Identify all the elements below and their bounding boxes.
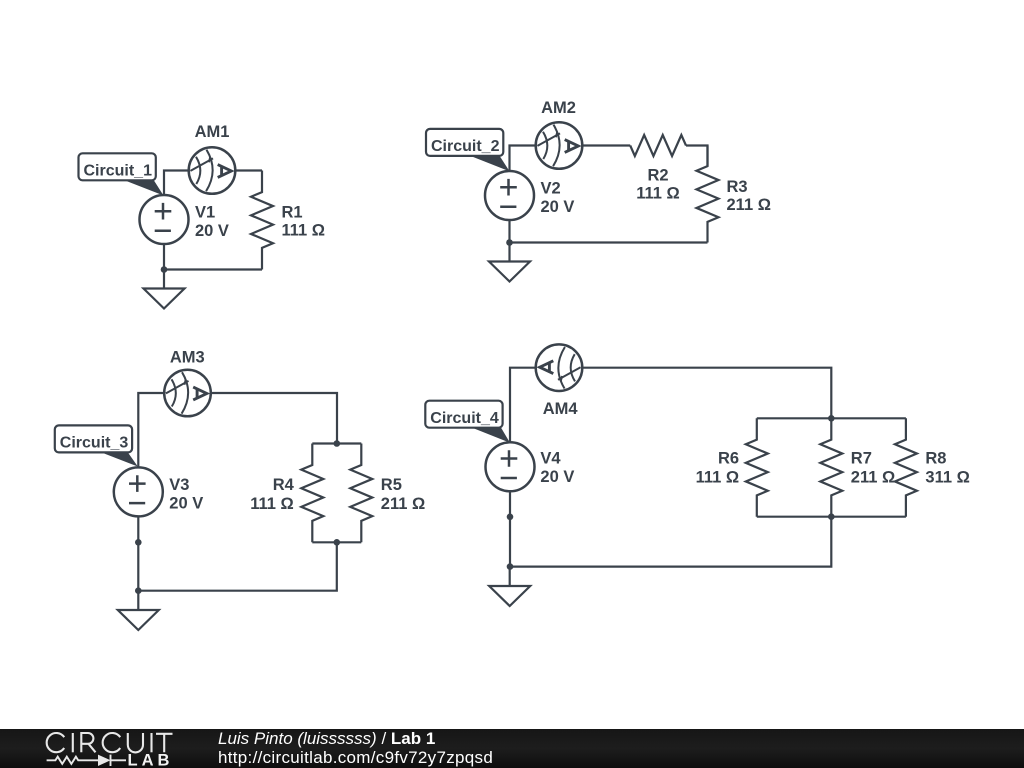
wire AM2 to R2: [582, 144, 630, 146]
ground: [163, 270, 165, 289]
wire V3 top to AM3: [138, 393, 164, 467]
wire V4 bottom down: [509, 491, 511, 566]
svg-text:AM2: AM2: [541, 99, 576, 117]
wire R3 bottom to node: [510, 241, 708, 243]
wire bottom rail c4: [757, 516, 906, 518]
wire V3 bottom down: [137, 516, 139, 590]
CircuitLab logo text CIRCUIT: [47, 733, 173, 752]
wire V2 top to AM2: [510, 146, 536, 172]
note label Circuit_3: [55, 425, 138, 466]
ammeter AM1 symbol: [189, 147, 236, 194]
svg-text:311 Ω: 311 Ω: [925, 468, 969, 486]
resistor R5: [350, 444, 372, 543]
junction c3 top rail: [334, 440, 341, 447]
svg-text:211 Ω: 211 Ω: [851, 468, 895, 486]
svg-text:http://circuitlab.com/c9fv72y7: http://circuitlab.com/c9fv72y7zpqsd: [218, 748, 493, 767]
wire V1 bottom to node: [163, 244, 165, 270]
resistor R4: [301, 444, 323, 543]
junction c2 bottom: [506, 239, 513, 246]
svg-text:111 Ω: 111 Ω: [282, 222, 326, 240]
svg-text:R2: R2: [647, 166, 668, 184]
svg-text:R3: R3: [727, 178, 748, 196]
junction c3 bottom rail: [334, 539, 341, 546]
svg-text:V1: V1: [195, 204, 215, 222]
svg-text:Circuit_2: Circuit_2: [431, 138, 500, 155]
svg-text:Circuit_1: Circuit_1: [84, 163, 153, 180]
resistor R3: [697, 146, 719, 243]
junction c1 bottom: [161, 266, 168, 273]
svg-text:R1: R1: [282, 204, 303, 222]
svg-text:111 Ω: 111 Ω: [636, 184, 680, 202]
svg-text:211 Ω: 211 Ω: [381, 495, 425, 513]
ammeter AM4 symbol: [536, 344, 583, 391]
wire AM3 to rail: [211, 393, 337, 444]
resistor R6: [746, 418, 768, 516]
svg-text:AM1: AM1: [195, 123, 230, 141]
footer bar: [0, 729, 1024, 768]
resistor R8: [895, 418, 917, 516]
junction c4 left mid: [507, 514, 514, 521]
voltage source V3: [114, 467, 163, 516]
svg-text:LAB: LAB: [128, 751, 174, 768]
wire rail to bottom c4: [510, 517, 831, 567]
svg-text:R8: R8: [925, 449, 946, 467]
note label Circuit_2: [426, 129, 510, 171]
logo diode triangle: [98, 755, 111, 766]
svg-text:20 V: 20 V: [541, 198, 575, 216]
voltage source V2: [485, 171, 534, 220]
wire rail to bottom: [138, 542, 336, 590]
wire V4 top to AM4: [510, 368, 537, 443]
svg-text:V4: V4: [540, 449, 561, 467]
svg-text:20 V: 20 V: [195, 222, 229, 240]
svg-text:111 Ω: 111 Ω: [250, 495, 294, 513]
note label Circuit_4: [425, 401, 510, 443]
voltage source V4: [486, 442, 535, 491]
svg-text:Circuit_3: Circuit_3: [60, 435, 129, 452]
svg-text:V2: V2: [541, 180, 561, 198]
svg-text:AM3: AM3: [170, 349, 205, 367]
svg-text:V3: V3: [169, 476, 189, 494]
resistor R1: [251, 171, 273, 270]
wire AM1 to R1: [235, 169, 262, 171]
resistor R2: [630, 135, 686, 156]
wire V1 top to AM1: [164, 171, 189, 196]
svg-text:Circuit_4: Circuit_4: [430, 410, 499, 427]
logo wire-resistor-diode squiggle: [47, 755, 126, 766]
note label Circuit_1: [79, 153, 164, 195]
svg-text:20 V: 20 V: [169, 494, 203, 512]
svg-text:20 V: 20 V: [540, 468, 574, 486]
svg-text:111 Ω: 111 Ω: [696, 468, 740, 486]
wire V2 bottom to node: [508, 220, 510, 243]
svg-text:AM4: AM4: [543, 400, 579, 418]
junction c4 bottom: [507, 563, 514, 570]
ground: [508, 243, 510, 262]
ammeter AM3 symbol: [164, 370, 211, 417]
wire bottom rail: [312, 541, 361, 543]
svg-text:R6: R6: [718, 449, 739, 467]
svg-text:211 Ω: 211 Ω: [727, 196, 771, 214]
ammeter AM2 symbol: [536, 122, 583, 169]
wire R1 bottom to node: [164, 268, 262, 270]
wire AM4 to rail: [583, 368, 831, 419]
resistor R7: [820, 418, 842, 516]
wire top rail c4: [757, 417, 906, 419]
svg-text:R4: R4: [273, 476, 295, 494]
ground: [509, 567, 511, 586]
wire R2 to R3: [686, 146, 708, 167]
svg-text:R5: R5: [381, 476, 402, 494]
svg-text:Luis Pinto (luissssss) / Lab 1: Luis Pinto (luissssss) / Lab 1: [218, 729, 435, 748]
ground: [137, 591, 139, 610]
junction c3 left mid: [135, 539, 142, 546]
voltage source V1: [140, 195, 189, 244]
junction c4 bottom rail: [828, 513, 835, 520]
junction c3 bottom: [135, 587, 142, 594]
junction c4 top rail: [828, 415, 835, 422]
svg-text:R7: R7: [851, 449, 872, 467]
wire top rail: [312, 442, 361, 444]
